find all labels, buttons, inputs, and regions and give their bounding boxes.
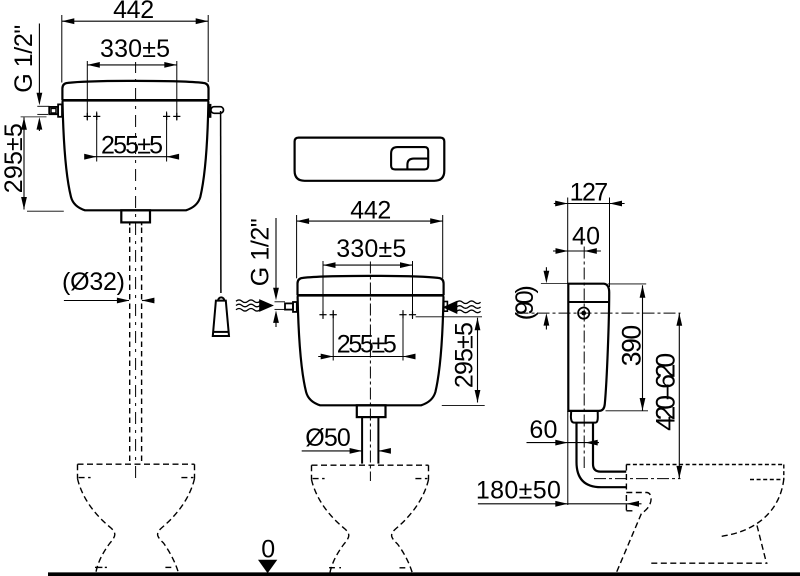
cistern body (left view) — [63, 102, 209, 211]
water supply arrow right (middle view) — [443, 301, 458, 314]
flush pipe solid (middle view) — [361, 417, 363, 464]
centerline (left view) — [135, 62, 137, 482]
bottom outlet (middle view) — [357, 405, 386, 417]
pull chain (left view) — [220, 111, 222, 293]
flush pipe dashed (left view) — [129, 228, 131, 465]
svg-text:(90): (90) — [511, 285, 539, 320]
svg-text:390: 390 — [617, 325, 647, 366]
dimension 442 (left view) — [62, 0, 208, 82]
side inlet boss right (middle view) — [444, 302, 448, 312]
label G 1/2" (middle view) — [246, 218, 285, 327]
toilet bowl dashed (left view) — [78, 464, 195, 572]
flush elbow pipe (side view) — [577, 423, 627, 488]
dimension 442 (middle view) — [297, 196, 443, 278]
centerline (middle view) — [369, 262, 371, 482]
chain handle (left view) — [213, 297, 229, 336]
water supply arrow left (middle view) — [259, 299, 274, 312]
svg-text:442: 442 — [350, 196, 391, 224]
svg-text:G 1/2": G 1/2" — [10, 25, 38, 93]
lid joint line (side view) — [568, 301, 609, 303]
water supply squiggle left (middle view) — [236, 300, 260, 311]
dimension (90) (side view) — [511, 267, 568, 329]
lid top view (middle) — [295, 138, 445, 181]
svg-text:(Ø32): (Ø32) — [62, 268, 125, 296]
svg-text:255±5: 255±5 — [101, 132, 163, 160]
dimension 127 (side view) — [554, 179, 625, 287]
bottom outlet (left view) — [121, 210, 150, 222]
fixing hole crosses (left view) — [84, 113, 181, 120]
svg-text:330±5: 330±5 — [100, 35, 170, 63]
water supply squiggle right (middle view) — [457, 301, 481, 313]
dimension 295±5 (left view) — [0, 117, 64, 211]
toilet bowl dashed (middle view) — [312, 465, 429, 572]
svg-text:G 1/2": G 1/2" — [246, 218, 274, 286]
pipe axis centerline (side view) — [594, 478, 681, 480]
svg-text:330±5: 330±5 — [336, 235, 406, 263]
dimension 295±5 (middle view) — [416, 317, 485, 406]
valve axis centerline (side view) — [517, 312, 681, 314]
inlet nipple (left view) — [49, 104, 62, 116]
vertical centerline (side view) — [583, 247, 585, 469]
ground line — [48, 572, 800, 576]
dimension 330±5 (left view) — [87, 35, 177, 120]
outlet flange (side view) — [571, 411, 598, 423]
cistern lid (middle view) — [298, 276, 444, 295]
svg-text:255±5: 255±5 — [337, 331, 397, 359]
flush button on lid (middle) — [391, 147, 428, 169]
dimension (Ø32) (left view) — [62, 268, 155, 304]
svg-text:295±5: 295±5 — [451, 322, 479, 388]
svg-text:180±50: 180±50 — [476, 477, 561, 505]
svg-text:127: 127 — [570, 179, 609, 207]
svg-text:442: 442 — [113, 0, 154, 24]
svg-text:60: 60 — [529, 416, 557, 444]
flush valve button (side view) — [578, 308, 589, 319]
svg-text:420–620: 420–620 — [650, 353, 680, 431]
dimension 40 (side view) — [553, 222, 601, 254]
cistern side outline (side view) — [568, 284, 609, 411]
inlet nipple (middle view) — [285, 302, 297, 312]
dimension 330±5 (middle view) — [323, 235, 413, 319]
dimension 255±5 (left view) — [84, 112, 179, 162]
cistern lid (left view) — [62, 81, 208, 100]
fixing hole crosses (middle view) — [319, 311, 416, 318]
label G 1/2" (left view) — [10, 24, 50, 132]
svg-text:Ø50: Ø50 — [305, 424, 351, 452]
svg-text:40: 40 — [572, 222, 600, 250]
toilet bowl dashed (side view) — [616, 465, 784, 573]
dimension Ø50 (middle view) — [302, 424, 391, 454]
dimension 180±50 (side view) — [476, 477, 642, 507]
svg-text:0: 0 — [261, 535, 275, 563]
dimension 390 (side view) — [606, 284, 649, 411]
dimension 255±5 (middle view) — [318, 310, 415, 361]
dimension 420–620 (side view) — [650, 313, 682, 478]
flush lever (left view) — [209, 104, 211, 118]
dimension 60 (side view) — [527, 412, 600, 506]
cistern body (middle view) — [298, 297, 444, 406]
